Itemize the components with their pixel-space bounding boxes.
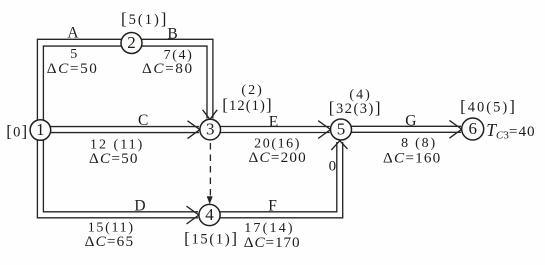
svg-text:6: 6: [468, 119, 477, 138]
svg-text:A: A: [67, 24, 79, 41]
wire edge E upper line (3 to 5): [211, 126, 330, 128]
svg-text:TC3=40: TC3=40: [486, 120, 535, 141]
svg-text:8 (8): 8 (8): [401, 136, 437, 151]
svg-text:ΔC=160: ΔC=160: [383, 150, 441, 167]
svg-text:[12(1)]: [12(1)]: [222, 95, 272, 114]
arrowhead into node 3 from B (pointing down): [203, 110, 218, 120]
svg-text:ΔC=80: ΔC=80: [142, 60, 194, 77]
svg-text:5: 5: [337, 120, 346, 139]
arrowhead into node 3 from C: [188, 121, 200, 139]
node 3 circle: [200, 119, 221, 140]
svg-text:C: C: [138, 112, 148, 129]
svg-text:E: E: [269, 113, 278, 130]
wire edge G lower line (5 to 6): [342, 131, 461, 133]
svg-text:[5(1)]: [5(1)]: [121, 9, 169, 28]
arrowhead into node 6 from G: [449, 120, 461, 138]
arrowhead into node 5 from F (pointing up): [331, 141, 347, 150]
svg-text:4: 4: [205, 205, 214, 224]
wire edge C upper line (1 to 3): [41, 126, 199, 128]
wire edge G upper line (5 to 6): [342, 125, 461, 127]
svg-text:[32(3)]: [32(3)]: [329, 98, 382, 117]
svg-text:ΔC=50: ΔC=50: [47, 60, 99, 77]
node 2 circle: [121, 33, 142, 54]
svg-text:(2): (2): [241, 83, 263, 98]
svg-text:F: F: [268, 198, 277, 215]
arrowhead into node 4 from D: [187, 206, 199, 224]
svg-text:1: 1: [36, 120, 45, 139]
svg-text:ΔC=65: ΔC=65: [85, 233, 135, 250]
node 5 circle: [331, 119, 352, 140]
svg-text:2: 2: [127, 33, 136, 52]
wire edge A-B inner (1-2-3 top rectangle inner line): [43, 46, 207, 130]
arrowhead into node 5 from E: [318, 121, 330, 139]
svg-text:[40(5)]: [40(5)]: [460, 96, 517, 115]
svg-text:ΔC=50: ΔC=50: [89, 150, 139, 167]
wire edge A-B outer (1-2-3 top rectangle outer line): [37, 39, 213, 130]
dummy activity dashed arrow 3 to 4: [207, 143, 213, 204]
wire edge E lower line (3 to 5): [211, 132, 330, 134]
svg-text:[0]: [0]: [6, 121, 28, 140]
svg-text:3: 3: [206, 120, 215, 139]
svg-text:ΔC=200: ΔC=200: [249, 149, 307, 166]
wire edge D outer line (1 to 4): [37, 130, 198, 218]
node 4 circle: [199, 204, 220, 225]
svg-text:ΔC=170: ΔC=170: [244, 234, 301, 251]
node 1 circle: [30, 120, 51, 141]
wire edge F outer line (4 to 5): [210, 142, 343, 218]
wire edge C lower line (1 to 3): [41, 132, 199, 134]
svg-text:D: D: [134, 198, 145, 215]
node 6 circle: [462, 118, 484, 140]
svg-text:G: G: [405, 113, 416, 130]
svg-text:0: 0: [329, 159, 337, 175]
wire edge D inner line (1 to 4): [43, 130, 198, 212]
svg-text:[15(1)]: [15(1)]: [184, 228, 239, 247]
svg-text:B: B: [167, 26, 177, 43]
wire edge F inner line (4 to 5): [210, 142, 337, 212]
